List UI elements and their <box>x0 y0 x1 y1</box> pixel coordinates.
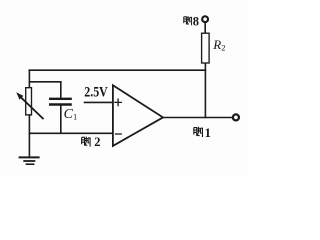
photoresistor R1 body <box>26 88 32 115</box>
wire: C1 bottom lead down to pin2 wire <box>60 106 62 134</box>
photoresistor R1 arrow <box>16 92 43 118</box>
wire: ground lead <box>28 133 30 156</box>
wire: left vertical from top corner down to R1 body <box>28 70 30 88</box>
ground <box>20 157 39 164</box>
svg-text:2: 2 <box>94 135 100 149</box>
svg-text:R2: R2 <box>212 37 225 53</box>
label 脚2 <box>82 135 101 149</box>
svg-text:2.5V: 2.5V <box>84 84 108 100</box>
resistor R2 body <box>202 33 210 63</box>
wire: output wire (pin 1) <box>163 117 232 119</box>
svg-text:8: 8 <box>193 14 199 28</box>
wire: branch from left vertical to C1 top <box>29 81 60 83</box>
svg-text:C1: C1 <box>64 107 78 122</box>
capacitor C1 plates <box>50 99 70 105</box>
wire: inverting input wire (pin 2) to op-amp <box>29 132 113 134</box>
wire: non-inverting input wire from 2.5V <box>85 101 113 103</box>
op-amp minus input sign <box>116 133 122 135</box>
terminal: pin 8 <box>202 16 208 22</box>
label 脚8 <box>184 14 199 28</box>
wire: top feedback wire from R1 top node to R2/output junction <box>29 69 205 71</box>
op-amp U1 <box>113 85 163 146</box>
wire: R2 bottom lead down through top wire to output wire <box>204 63 206 118</box>
wire: C1 top lead <box>60 82 62 98</box>
wire: R1 bottom lead down to pin2 node <box>28 115 30 133</box>
wire: R2 top lead from pin8 terminal <box>204 22 206 33</box>
op-amp plus input sign <box>115 99 121 105</box>
label 脚1 <box>194 126 211 140</box>
svg-text:1: 1 <box>205 126 211 140</box>
terminal: pin 1 output <box>233 114 239 120</box>
